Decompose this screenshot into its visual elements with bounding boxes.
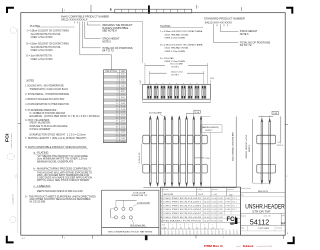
zone tick top x241 [241, 7, 243, 11]
svg-text:AA: AA [281, 221, 286, 225]
svg-text:E: E [161, 205, 162, 207]
svg-text:24: 24 [116, 141, 118, 143]
svg-text:EXAMPLE : (8 POS PER ROW, N =: EXAMPLE : (8 POS PER ROW, N = 8) N x 2.5… [30, 115, 100, 118]
svg-text:E = TIN LOAD: E = TIN LOAD [160, 57, 174, 60]
svg-text:SEE NOTE 8: SEE NOTE 8 [102, 28, 117, 32]
svg-text:FCI: FCI [227, 216, 237, 223]
svg-text:15: 15 [116, 115, 118, 117]
svg-text:13: 13 [116, 109, 118, 111]
svg-text:NOTE 5: NOTE 5 [172, 75, 180, 77]
svg-text:S.HE: S.HE [225, 202, 230, 204]
callout lines from RoHS part number [74, 22, 76, 24]
svg-text:1.190: 1.190 [140, 80, 142, 85]
zone tick bottom x62 [62, 235, 64, 238]
zone divider thick bar bottom center [145, 235, 148, 240]
svg-text:04-04: 04-04 [204, 209, 210, 211]
svg-text:NOTE 7: NOTE 7 [206, 130, 213, 132]
callout lines from standard part number [213, 24, 215, 26]
svg-text:(MATING LENGTH): (MATING LENGTH) [202, 126, 219, 129]
svg-text:B = 0.38um GOLD/DXT ON CONTACT: B = 0.38um GOLD/DXT ON CONTACT AREA [160, 44, 203, 47]
svg-text:19.30: 19.30 [121, 135, 125, 137]
end view right dim [280, 116, 282, 143]
svg-text:04 TO 72: 04 TO 72 [102, 49, 114, 53]
svg-text:3. PRODUCT PACKAGED IN PLASTIC: 3. PRODUCT PACKAGED IN PLASTIC BOX [25, 98, 64, 101]
svg-text:9.10: 9.10 [121, 94, 124, 96]
svg-text:04-05: 04-05 [204, 213, 210, 215]
svg-text:17: 17 [116, 120, 118, 122]
svg-text:9.4.04: 9.4.04 [211, 205, 217, 207]
svg-text:7. MATING LENGTH = (DAL)-(2.4): 7. MATING LENGTH = (DAL)-(2.4)-(STACK HE… [25, 137, 86, 140]
svg-text:Copyright FCI: Copyright FCI [12, 194, 15, 205]
hole pattern dimension lines [115, 200, 117, 207]
svg-text:6.10: 6.10 [121, 77, 124, 79]
hole row spacing dim [110, 209, 112, 218]
svg-text:EXAMPLE FOR STACK HEIGHT : 1 2: EXAMPLE FOR STACK HEIGHT : 1 2 5 0 = 12.… [30, 134, 86, 137]
revision table [161, 187, 241, 235]
svg-text:S.HE: S.HE [225, 205, 230, 207]
registration circle mid-left margin [7, 153, 14, 160]
svg-text:04-07: 04-07 [204, 221, 210, 223]
boxed dim 2.54 end view [272, 111, 278, 114]
small mark left of strip [110, 9, 112, 11]
zone divider thick bar top center [148, 5, 150, 13]
svg-text:0.64 SQUARE: 0.64 SQUARE [149, 112, 163, 115]
svg-text:WITH A 1.6mm NML THICK CIRCUIT: WITH A 1.6mm NML THICK CIRCUIT BOARD [37, 179, 90, 182]
svg-text:NOTE 4: NOTE 4 [277, 145, 283, 147]
svg-text:MINIMUM NICKEL UNDERPLATE: MINIMUM NICKEL UNDERPLATE [37, 161, 74, 164]
svg-text:22: 22 [116, 135, 118, 137]
svg-text:4. ON MIN RETENTION IN OTHER D: 4. ON MIN RETENTION IN OTHER DIRECTION [25, 104, 69, 106]
svg-text:N = NUMBER OF POSITIONS PER RO: N = NUMBER OF POSITIONS PER ROW [30, 113, 66, 115]
svg-text:15.24: 15.24 [121, 126, 125, 128]
zone tick bottom x283 [282, 235, 284, 239]
front view dimension (N-1) x 2.54 extension lines [148, 71, 150, 84]
svg-text:9.6.04: 9.6.04 [211, 213, 217, 215]
left stack dim 2.54 rotated [141, 144, 143, 165]
registration circle top-left margin [10, 27, 16, 33]
svg-text:54112-XXXXXXXXLF: 54112-XXXXXXXXLF [61, 18, 88, 22]
svg-text:CHG PER ECN-F4-0370: CHG PER ECN-F4-0370 [163, 198, 201, 200]
svg-text:STR DR TMT: STR DR TMT [252, 209, 271, 213]
svg-text:10.16: 10.16 [121, 100, 125, 102]
zone tick top x196 [195, 5, 197, 9]
callout line across to front view [89, 20, 143, 22]
svg-text:5.60: 5.60 [121, 74, 124, 76]
svg-text:(N-1) X 2.54: (N-1) X 2.54 [171, 71, 183, 73]
svg-text:16.26: 16.26 [121, 129, 125, 131]
svg-text:12: 12 [116, 106, 118, 108]
svg-text:SPECIFY MILLIMETERS: SPECIFY MILLIMETERS [30, 123, 51, 125]
svg-text:OVER 1.27um NI MIN: OVER 1.27um NI MIN [31, 58, 53, 61]
svg-text:13.72: 13.72 [121, 120, 125, 122]
svg-text:8.10: 8.10 [121, 88, 124, 90]
svg-text:4: 4 [117, 82, 118, 84]
svg-text:9.5.04: 9.5.04 [211, 209, 217, 211]
svg-text:04-06: 04-06 [204, 217, 210, 219]
front view connector body [143, 84, 211, 99]
boxed dim 2.54 top of side view [194, 110, 200, 113]
svg-text:9.8.04: 9.8.04 [211, 221, 217, 223]
corner mark bottom-left [7, 236, 14, 243]
svg-text:23: 23 [116, 138, 118, 140]
svg-text:20: 20 [116, 129, 118, 131]
small c mark left margin [15, 175, 18, 178]
svg-text:NOTE 6: NOTE 6 [249, 144, 251, 152]
svg-text:NOTE 6: NOTE 6 [102, 39, 111, 43]
svg-text:NON-ACCUM TYP: NON-ACCUM TYP [132, 194, 148, 197]
svg-text:PDM Rev G: PDM Rev G [204, 245, 223, 248]
svg-text:18: 18 [116, 123, 118, 125]
registration circle lower-left margin [10, 217, 16, 223]
svg-text:CUSTOMER: CUSTOMER [258, 228, 270, 230]
zone tick bottom x92 [91, 235, 93, 239]
hole pattern circles [114, 207, 117, 210]
svg-text:5: 5 [117, 85, 118, 87]
svg-text:NOTE 5: NOTE 5 [172, 66, 180, 68]
svg-text:dwg no: dwg no [241, 215, 246, 217]
bottom reference line [143, 187, 236, 189]
svg-text:54112: 54112 [250, 218, 270, 227]
svg-text:10: 10 [116, 100, 118, 102]
svg-text:4.5: 4.5 [278, 142, 281, 144]
front view dimension (N-1) x 2.54 [149, 72, 166, 74]
svg-text:CHG PER ECN-99-0018: CHG PER ECN-99-0018 [163, 217, 201, 219]
svg-text:04 TO 72: 04 TO 72 [240, 43, 252, 47]
end view upper housing [257, 135, 276, 144]
svg-text:CHG PER ECN-F2-0183: CHG PER ECN-F2-0183 [163, 205, 201, 207]
front view dimension N x 2.54 [145, 64, 165, 66]
svg-text:CHG PER ECN-F3-0291: CHG PER ECN-F3-0291 [163, 202, 201, 204]
svg-text:size: size [282, 215, 285, 217]
underlines in notes [27, 148, 88, 150]
svg-text:OVER 1.27um NI MIN: OVER 1.27um NI MIN [31, 36, 53, 39]
svg-text:10.66: 10.66 [121, 103, 125, 105]
svg-text:OVER 1.27um NI MIN: OVER 1.27um NI MIN [164, 51, 185, 53]
svg-text:9.7.04: 9.7.04 [211, 217, 217, 219]
svg-text:status: status [236, 245, 241, 248]
svg-text:14: 14 [116, 112, 118, 114]
zone tick top x91 [90, 5, 92, 13]
svg-text:7: 7 [117, 91, 118, 93]
svg-text:"LF" MEANS THE PRODUCT IS LOAD: "LF" MEANS THE PRODUCT IS LOAD FREE [37, 155, 88, 158]
svg-text:21: 21 [116, 132, 118, 134]
end view lower housing [257, 164, 276, 173]
svg-text:IN GS-22-008: IN GS-22-008 [30, 202, 46, 204]
zone tick top x63 [62, 8, 64, 13]
corner mark top-left [7, 8, 14, 13]
svg-text:RoHS COMPATIBLE PRODUCT NUMBER: RoHS COMPATIBLE PRODUCT NUMBER [61, 14, 109, 18]
svg-text:IN 0.50mm INCREMENT: IN 0.50mm INCREMENT [30, 129, 51, 131]
svg-text:12.19: 12.19 [121, 112, 125, 114]
svg-text:11.68: 11.68 [121, 109, 125, 111]
svg-text:RECOMMENDED HOLE PATTERN: RECOMMENDED HOLE PATTERN [108, 230, 153, 233]
svg-text:Released: Released [243, 245, 254, 248]
svg-text:04-03: 04-03 [204, 205, 210, 207]
svg-text:12.70: 12.70 [121, 115, 125, 117]
svg-text:16: 16 [116, 118, 118, 120]
svg-text:04-02: 04-02 [204, 202, 210, 204]
zone tick left border [18, 123, 21, 125]
svg-text:OVER 1.27um NI MIN: OVER 1.27um NI MIN [164, 38, 185, 40]
svg-text:2. PIN MATERIAL : PHOSPHOR BRO: 2. PIN MATERIAL : PHOSPHOR BRONZE [25, 93, 69, 96]
svg-text:S.HE: S.HE [225, 198, 230, 200]
recommended hole pattern box [102, 190, 159, 228]
svg-text:2.54±0.25: 2.54±0.25 [139, 152, 141, 163]
svg-text:B: B [161, 217, 162, 219]
svg-text:9.3.04: 9.3.04 [211, 202, 217, 204]
svg-text:FCI: FCI [5, 133, 11, 142]
svg-text:260C +5C SOLDER BATH TEMPERATU: 260C +5C SOLDER BATH TEMPERATURE FOR [37, 174, 90, 177]
svg-text:1 = 0.38um GOLD/DXT ON CONTACT: 1 = 0.38um GOLD/DXT ON CONTACT AREA [160, 30, 202, 33]
svg-text:17.27: 17.27 [121, 132, 125, 134]
svg-text:3um MINIMUM MATTE TIN OVER 1.2: 3um MINIMUM MATTE TIN OVER 1.27um [37, 158, 87, 161]
corner mark top-right [286, 8, 292, 14]
svg-text:13.21: 13.21 [121, 118, 125, 120]
svg-text:3.8um TIN/LEAD ON TAIL: 3.8um TIN/LEAD ON TAIL [164, 33, 189, 36]
svg-text:6: 6 [117, 88, 118, 90]
svg-text:19: 19 [116, 126, 118, 128]
svg-text:F: F [161, 202, 162, 204]
mating length label [201, 125, 222, 133]
svg-text:11.18: 11.18 [121, 106, 125, 108]
svg-text:STANDARD PRODUCT NUMBER: STANDARD PRODUCT NUMBER [204, 16, 245, 20]
svg-text:DAL (OVERALL LENGTH) REF: DAL (OVERALL LENGTH) REF [232, 131, 235, 161]
pin style dim table [104, 75, 127, 78]
svg-text:CHG PER ECN-F0-0042: CHG PER ECN-F0-0042 [163, 213, 201, 215]
front view contact pattern [148, 83, 150, 85]
svg-text:21.34: 21.34 [121, 138, 125, 140]
svg-text:9: 9 [117, 97, 118, 99]
side view pin shafts [149, 119, 151, 183]
svg-text:OVER 1.27um NI MIN: OVER 1.27um NI MIN [31, 49, 53, 52]
side view mating pin tips [149, 116, 151, 119]
svg-text:14.22: 14.22 [121, 123, 125, 125]
svg-text:6.60: 6.60 [121, 79, 124, 81]
svg-text:THERMOPLASTIC, UL94V-0 COLOR:: THERMOPLASTIC, UL94V-0 COLOR: BLACK [30, 88, 69, 91]
dim 2.54 between pins side view [195, 157, 205, 159]
callout line down to pin style table [111, 55, 113, 70]
svg-text:54112-XXX-XX-XXXX: 54112-XXX-XX-XXXX [205, 20, 232, 24]
stack height dimension rotated [252, 119, 254, 183]
svg-text:CHG PER ECN-F1-0094: CHG PER ECN-F1-0094 [163, 209, 201, 211]
side view upper housing cells [143, 135, 150, 144]
sheet border [21, 13, 285, 236]
svg-text:8.60: 8.60 [121, 91, 124, 93]
svg-text:PLATING: PLATING [30, 25, 40, 28]
svg-text:N X 2.54 MM: N X 2.54 MM [170, 63, 182, 65]
svg-text:7.60: 7.60 [121, 85, 124, 87]
svg-text:24.38: 24.38 [121, 141, 125, 143]
svg-text:2: 2 [117, 77, 118, 79]
svg-text:ROWS ARE TO 25.00mm AND AVAILA: ROWS ARE TO 25.00mm AND AVAILABLE [30, 125, 68, 128]
svg-text:1. HOLDING MAT'L : HIGH TEMPER: 1. HOLDING MAT'L : HIGH TEMPERATURE [25, 85, 64, 88]
title block [240, 187, 242, 235]
corner mark bottom-right [287, 237, 293, 244]
svg-text:NOTE 6: NOTE 6 [240, 32, 249, 36]
svg-text:STACK HEIGHT ±0.25: STACK HEIGHT ±0.25 [245, 134, 248, 159]
sheet index strips [161, 228, 225, 230]
svg-text:3.8um TIN/LEAD ON TAIL: 3.8um TIN/LEAD ON TAIL [164, 47, 189, 50]
end view pins [261, 118, 263, 121]
side view lower housing cells [143, 164, 150, 173]
svg-text:9.2.04: 9.2.04 [211, 198, 217, 200]
svg-text:5. TO DETERMINE DIMENSIONS :: 5. TO DETERMINE DIMENSIONS : [25, 110, 57, 112]
paper edge faint line [17, 28, 19, 233]
svg-text:1: 1 [117, 74, 118, 76]
connector top view strip [115, 9, 192, 13]
zone tick right border [285, 123, 288, 125]
svg-text:BERGSTIK: BERGSTIK [258, 191, 269, 193]
svg-text:11: 11 [116, 103, 118, 105]
svg-text:7.10: 7.10 [121, 82, 124, 84]
svg-text:3: 3 [117, 79, 118, 81]
DAL overall length dimension [235, 117, 237, 188]
zone tick bottom x196 [195, 235, 197, 238]
front view bottom dimension [142, 99, 144, 102]
svg-text:Printed Feb 26 2006: Printed Feb 26 2006 [257, 245, 272, 248]
front view dimension N x 2.54 extension lines [144, 63, 146, 84]
svg-text:S.HE: S.HE [225, 209, 230, 211]
svg-text:NOTES: NOTES [27, 78, 35, 82]
side view lower pin tips [149, 183, 151, 187]
svg-text:8: 8 [117, 94, 118, 96]
svg-text:9.60: 9.60 [121, 97, 124, 99]
svg-text:MEETS PACKAGING SPECS AS PER G: MEETS PACKAGING SPECS AS PER GS-14-025 [37, 190, 83, 193]
svg-text:04-01: 04-01 [204, 198, 210, 200]
